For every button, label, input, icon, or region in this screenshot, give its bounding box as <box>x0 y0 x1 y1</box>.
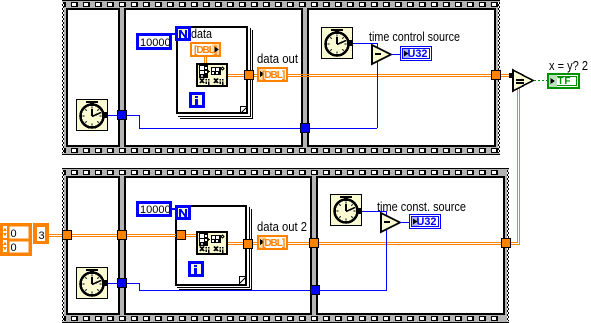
svg-text:U32: U32 <box>417 216 437 228</box>
sequence 1 frame 2 <box>124 8 303 147</box>
sequence 1 partial edge holes <box>62 2 66 7</box>
wire AxB to loop output tunnel (bottom) <box>228 242 244 243</box>
numeric constant 10000 (top) <box>136 33 172 50</box>
wire clock3 to tunnel <box>108 283 117 284</box>
indicator terminal U32 time const source <box>410 215 441 229</box>
wire tunnel to divider2 with jog <box>127 115 139 116</box>
for loop 2 page fold corner <box>239 276 247 277</box>
svg-text:10000: 10000 <box>140 37 171 49</box>
subtract function node (bottom) <box>381 213 400 232</box>
wire clock2 to subtract x input <box>353 43 378 44</box>
svg-text:0: 0 <box>11 242 17 254</box>
sequence 1 outer border lines <box>62 0 500 1</box>
sequence 2 frame 3 <box>316 176 505 315</box>
for loop 2 count terminal N <box>175 205 191 220</box>
array constant terminal [DBL] data (top loop) <box>191 43 220 56</box>
for loop 2 main border <box>176 206 246 285</box>
wire tunnel to subtract y input (top frame 3) <box>310 128 377 129</box>
AxB subVI icon (top loop) <box>196 63 228 87</box>
svg-text:data out: data out <box>257 51 298 66</box>
sequence 2 left edge tunnel (orange) <box>62 230 72 240</box>
svg-text:U32: U32 <box>408 48 428 60</box>
svg-text:time control source: time control source <box>369 29 460 44</box>
sequence 2 right torn edge <box>507 170 509 321</box>
sequence 2 divider 2 tunnel (orange) <box>309 238 319 248</box>
numeric constant 10000 (bottom) <box>136 201 172 217</box>
sequence tunnel blue on divider 1 (top) <box>117 110 127 120</box>
sequence 2 divider 1 tunnel (orange) <box>117 230 127 240</box>
for loop 1 count terminal N <box>175 26 191 41</box>
wire bottom sequence output right and up to equal node (orange array) <box>511 242 517 243</box>
svg-text:[DBL]: [DBL] <box>262 238 285 249</box>
wire tunnel to AxB icon (bottom) <box>186 234 196 235</box>
svg-text:data: data <box>191 26 213 41</box>
loop 1 iteration terminal i <box>189 92 205 108</box>
svg-text:time const. source: time const. source <box>377 199 466 214</box>
wire subtract to U32 indicator (bottom) <box>400 222 410 223</box>
wire tunnel to subtract y input (bottom frame 3) <box>320 290 387 291</box>
loop 1 output tunnel (orange) <box>244 70 254 80</box>
AxB subVI icon (bottom loop) <box>196 231 228 255</box>
numeric constant 3 (orange filled) <box>33 223 49 244</box>
array constant (2 elements, value 0) outside sequence <box>0 223 32 256</box>
svg-text:10000: 10000 <box>140 204 171 216</box>
wire array constant to AxB icon (vertical array wire) <box>204 56 205 63</box>
sequence 1 frame 3 <box>307 8 496 147</box>
boolean dotted wire equal to TF indicator <box>534 80 536 81</box>
indicator terminal TF boolean <box>547 73 580 89</box>
sequence 2 sprocket holes bottom strip <box>71 316 498 321</box>
sequence 1 sprocket holes bottom strip <box>71 148 498 153</box>
flat sequence structure 1 (top) filmstrip border <box>62 0 500 155</box>
sequence 2 divider 1 tunnel (blue) <box>117 278 127 288</box>
wire clock1 to tunnel (blue scalar) <box>108 115 117 116</box>
svg-text:data out 2: data out 2 <box>257 219 307 234</box>
indicator terminal data out [DBL] <box>258 68 287 81</box>
sequence 2 outer border lines <box>62 168 509 169</box>
indicator terminal U32 time control source <box>401 47 432 61</box>
sequence 1 right edge output tunnel (orange) <box>491 70 501 80</box>
svg-text:[DBL]: [DBL] <box>194 45 217 56</box>
wire tunnel to divider 2 with jog (bottom) <box>127 283 139 284</box>
wire array input across frames 1-2 (bottom, orange array) <box>49 234 176 235</box>
array element cells <box>8 225 30 240</box>
clock: tick count (ms) 4, bottom frame 3 <box>330 194 362 226</box>
loop 2 iteration terminal i <box>188 261 204 277</box>
clock: tick count (ms) 3, bottom frame 1 <box>76 267 108 299</box>
sequence 1 right torn edge <box>498 2 500 153</box>
svg-text:TF: TF <box>558 76 572 87</box>
sequence 2 partial edge holes <box>62 170 66 175</box>
wire AxB icon to loop tunnel (array) <box>228 74 254 75</box>
subtract function node (top) <box>372 45 391 64</box>
flat sequence structure 2 (bottom) filmstrip border <box>62 168 509 323</box>
loop 2 output tunnel (orange) <box>243 239 253 249</box>
for loop 1 echo borders (stacked sheets) <box>178 28 253 119</box>
wire 10000 to N terminal <box>172 33 175 35</box>
sequence 2 frame 2 <box>124 176 312 315</box>
clock: tick count (ms) 2, top frame 3 <box>321 27 353 59</box>
for loop 1 main border <box>177 27 247 113</box>
wire subtract to U32 indicator (top) <box>391 54 401 55</box>
wire clock4 to subtract x input <box>362 211 387 212</box>
sequence 2 divider 2 tunnel (blue) <box>310 285 320 295</box>
equal? input terminal nub <box>509 73 513 78</box>
clock: tick count (ms) 1, top frame 1 <box>76 99 108 131</box>
svg-text:0: 0 <box>11 228 17 240</box>
for loop 1 page fold corner <box>240 106 248 107</box>
equal? comparison node <box>513 70 533 91</box>
svg-text:x = y? 2: x = y? 2 <box>549 58 588 73</box>
sequence 2 left torn edge <box>62 170 64 321</box>
sequence 1 left torn edge <box>62 2 64 153</box>
sequence tunnel blue on divider 2 (top) <box>300 123 310 133</box>
svg-text:3: 3 <box>39 230 45 242</box>
sequence 1 sprocket holes top strip <box>71 2 498 7</box>
wire data out 2 array across frame 3 (bottom) <box>253 242 506 243</box>
sequence 2 frame 1 <box>66 176 120 315</box>
indicator terminal data out 2 [DBL] <box>258 236 287 249</box>
for loop 2 echo borders (stacked sheets) <box>177 207 252 290</box>
wire data out array across frame 3 (top) <box>254 74 513 75</box>
wire 10000 to N terminal (bottom) <box>172 208 175 210</box>
svg-text:[DBL]: [DBL] <box>262 70 285 81</box>
loop 2 input tunnel (orange) <box>176 230 186 240</box>
sequence 2 right edge output tunnel (orange) <box>501 238 511 248</box>
sequence 2 sprocket holes top strip <box>71 170 498 175</box>
sequence 1 frame 1 <box>66 8 120 147</box>
